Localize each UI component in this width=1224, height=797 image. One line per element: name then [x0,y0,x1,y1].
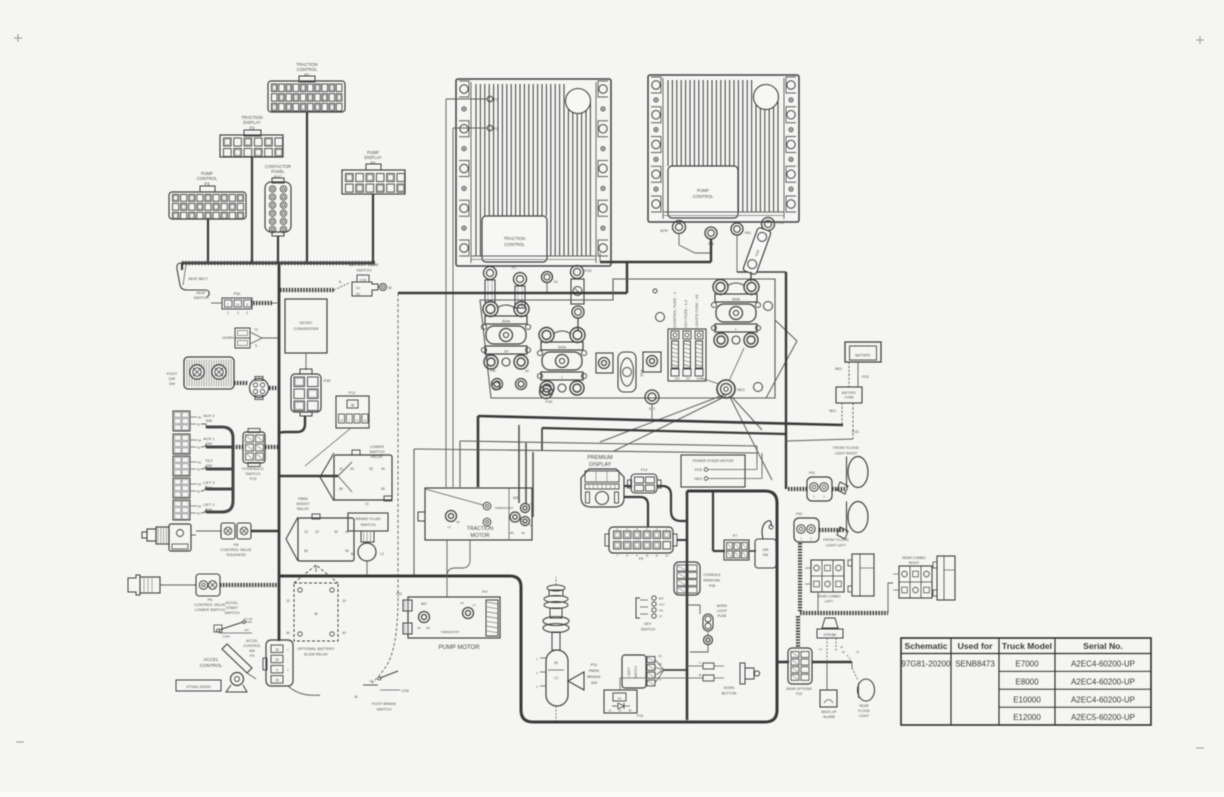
svg-text:SWITCH: SWITCH [246,472,261,476]
svg-text:PUMP: PUMP [697,188,709,193]
svg-text:NO: NO [356,292,361,296]
strobe leads [826,638,828,660]
harness comb for hydraulic switches [207,427,233,512]
wire hatched bus to rear combo right [888,583,893,613]
svg-text:TRACTION: TRACTION [504,236,525,241]
svg-text:52: 52 [197,468,201,472]
svg-text:P13: P13 [250,477,257,481]
svg-text:SOLENOID: SOLENOID [226,553,246,557]
wire rear combo left drop [817,592,819,612]
svg-text:NEG: NEG [695,477,703,481]
wire P41 to lamp [832,487,845,491]
svg-text:SW: SW [206,441,213,446]
pump motor connector P51 [486,600,498,636]
svg-text:POS: POS [776,221,784,225]
wire P14 to console trunk [657,486,687,521]
svg-text:Serial No.: Serial No. [1083,641,1123,651]
svg-text:LIGHTS FUSE - #3: LIGHTS FUSE - #3 [694,295,699,328]
svg-text:FOOT BRAKE: FOOT BRAKE [372,702,397,706]
panel hole 4 [754,383,763,392]
pump module stud P58 [705,227,717,239]
svg-text:52: 52 [197,490,201,494]
svg-text:29: 29 [275,679,279,683]
svg-text:POS: POS [584,269,592,273]
svg-text:E10000: E10000 [1013,695,1041,704]
bus1 panel to battery [478,416,843,425]
svg-text:P12: P12 [349,391,356,395]
svg-text:50: 50 [554,661,558,665]
svg-text:P16: P16 [637,714,643,718]
wire NEG to contactor L [729,348,744,381]
console removal connector P45 [674,562,700,595]
traction motor shaft [418,512,425,521]
wire battery NEG lead [848,362,850,374]
traction module terminal P2 [487,125,493,131]
svg-text:10: 10 [339,467,343,471]
svg-text:POS: POS [852,430,859,434]
svg-text:P40: P40 [490,369,496,373]
svg-text:50: 50 [198,439,202,443]
svg-text:10: 10 [236,303,240,307]
wire slide fuse to contactor L [750,272,752,281]
wire trunk to relays y476 [279,475,338,477]
wire NEG to fuse block [701,378,719,384]
stud ST1 [645,390,659,404]
svg-text:THERMOSTAT: THERMOSTAT [495,506,514,510]
switch connector AUX 1 SW [173,434,190,454]
stud ST1 150A [596,353,613,373]
svg-text:DIR: DIR [169,377,176,381]
switch connector LIFT 1 SW [173,500,190,520]
svg-text:1A: 1A [504,350,509,354]
svg-text:D8: D8 [426,626,430,630]
svg-text:13A: 13A [674,377,679,381]
contactor 1A lower studs [492,379,503,390]
contactor I 300A [539,328,554,343]
wire P1 to bus [306,112,308,263]
battery [845,342,881,362]
svg-text:50: 50 [345,549,349,553]
svg-text:32: 32 [286,599,290,603]
dashed drop x398 to pump motor [397,293,399,597]
svg-text:FOOT: FOOT [167,372,178,376]
wire brake fluid switch to bus [366,561,368,576]
front flood light left [848,502,868,533]
svg-text:POS: POS [695,468,703,472]
svg-text:CONTROL FUSE - 4: CONTROL FUSE - 4 [672,291,677,328]
svg-text:Used for: Used for [958,641,994,651]
svg-text:P29: P29 [796,692,802,696]
svg-text:P47: P47 [482,590,488,594]
svg-text:SWITCH: SWITCH [377,708,392,712]
wire converter to P39 [305,353,307,370]
rear combo right housing [937,556,955,600]
svg-text:+: + [287,668,289,672]
svg-text:50: 50 [198,505,202,509]
wire battery conn NEG drop [841,403,843,424]
svg-text:DISPLAY: DISPLAY [364,155,382,160]
wire P4 to bus [372,194,374,263]
svg-text:RIGHT: RIGHT [909,561,920,565]
hydraulic switch connector P13 [243,432,265,463]
wire feeder to P41 [788,487,807,491]
seat belt icon [177,263,209,297]
switch connector TILT SW [173,456,190,476]
svg-text:50: 50 [198,416,202,420]
console trunk x687 [686,491,689,720]
svg-text:60: 60 [304,549,308,553]
panel corner notch [766,341,797,398]
wire P9 bottom curve [288,686,320,695]
svg-text:KEY FUSE - 1,2: KEY FUSE - 1,2 [683,300,688,328]
svg-text:STROBE: STROBE [823,633,836,637]
svg-text:A2: A2 [460,601,464,605]
key switch [636,598,640,618]
svg-text:P41: P41 [809,471,815,475]
svg-text:A2: A2 [525,369,529,373]
svg-text:LOWER SWITCH: LOWER SWITCH [195,608,225,612]
svg-text:LIGHT RIGHT: LIGHT RIGHT [835,452,859,456]
svg-text:50: 50 [198,461,202,465]
dc/dc converter [285,299,327,353]
svg-text:300A: 300A [732,298,741,302]
svg-text:E12000: E12000 [1013,713,1041,722]
panel hole 3 [764,302,773,311]
svg-text:SWITCH: SWITCH [357,269,372,273]
traction module stud A1 [542,272,553,283]
svg-text:A2: A2 [529,523,533,527]
svg-text:HORN: HORN [222,336,233,340]
stud NEG [717,380,735,398]
svg-text:13A: 13A [696,377,701,381]
svg-text:NEG: NEG [835,367,842,371]
svg-text:SW: SW [206,418,213,423]
svg-text:30: 30 [369,467,373,471]
svg-text:ALARM: ALARM [823,715,835,719]
wire NEG to bus2 [731,396,762,430]
control valve solenoid [142,532,147,538]
svg-text:LIGHT LEFT: LIGHT LEFT [826,544,847,548]
svg-text:ASSIST: ASSIST [296,502,310,506]
fuse block three fuses [668,329,706,381]
svg-text:P1C: P1C [274,175,282,180]
wire P42 to lamp [819,528,845,532]
svg-text:PA1: PA1 [745,231,751,235]
wire ST1 to bus1 [651,404,653,420]
bus2 panel to x786 [542,428,786,434]
svg-text:52: 52 [658,654,662,658]
svg-text:10: 10 [340,419,344,423]
connector P8 [221,523,235,539]
svg-text:SLIDE RELAY: SLIDE RELAY [304,653,329,657]
wire branch to P7 [712,491,714,551]
park brake switch stack [547,585,565,591]
svg-text:NEG: NEG [737,388,745,392]
svg-text:FRONT FLOOD: FRONT FLOOD [833,446,859,450]
svg-text:3: 3 [246,311,248,315]
switch connector LIFT 2 SW [173,478,190,498]
traction module stud POS [571,266,584,279]
svg-text:50: 50 [381,487,385,491]
svg-text:L2: L2 [819,647,823,651]
wire traction motor to pump motor 2 [447,540,470,576]
wire long y451 power steer stub NEG [761,453,763,474]
svg-text:L: L [735,328,737,332]
svg-text:52: 52 [197,446,201,450]
park brake switch leads [555,577,557,585]
svg-text:SWITCH: SWITCH [194,296,209,300]
svg-text:SWITCH: SWITCH [225,611,240,615]
svg-text:1: 1 [227,311,229,315]
svg-text:10: 10 [342,599,346,603]
park brake switch body [546,650,568,706]
wire trunk to battery slide switch [280,288,334,292]
foot brake switch [363,684,378,686]
svg-text:60: 60 [456,520,460,524]
svg-text:P52: P52 [234,292,241,296]
svg-text:THERMOSTAT: THERMOSTAT [441,630,460,634]
svg-text:A2EC4-60200-UP: A2EC4-60200-UP [1071,660,1135,669]
svg-text:CONTROL VALVE: CONTROL VALVE [194,603,226,607]
svg-text:ACCEL: ACCEL [226,601,239,605]
wire P3 to bus [207,219,209,263]
panel hole 1 [653,289,657,293]
wire NEG to y451 [614,396,726,451]
pump module stud POS [762,218,775,231]
rear combo right cluster [899,566,932,598]
svg-text:LOWER: LOWER [370,445,384,449]
wire module terminal to left drop 1 [446,98,487,100]
switch connector AUX 2 SW [173,411,190,431]
svg-text:P39: P39 [324,379,331,383]
svg-text:SWITCH: SWITCH [634,665,638,678]
svg-text:63: 63 [658,662,662,666]
svg-text:39: 39 [275,648,279,652]
svg-text:A2EC4-60200-UP: A2EC4-60200-UP [1071,677,1135,686]
svg-text:SWITCH: SWITCH [641,628,656,632]
hatched wire above P29 [796,616,800,647]
svg-text:SEAT BELT: SEAT BELT [188,277,209,281]
battery connector [836,387,862,403]
svg-text:PREMIUM: PREMIUM [587,455,613,461]
pump motor box [408,597,500,638]
svg-text:MOTOR: MOTOR [470,533,489,539]
back-up alarm [826,663,828,690]
svg-text:SW: SW [591,680,598,685]
light switch [622,655,646,688]
wire P13 to trunk [265,445,279,449]
svg-text:14: 14 [363,419,367,423]
svg-text:KEY: KEY [644,622,652,626]
rear flood light [851,662,853,668]
wire foot dir switch to P49 [234,381,248,385]
svg-text:CONTROL: CONTROL [243,644,261,648]
svg-text:50: 50 [628,709,632,713]
pump module stud PA1 [731,223,743,235]
svg-text:7: 7 [227,303,229,307]
contactor I POS stud [540,386,553,399]
svg-text:A2EC4-60200-UP: A2EC4-60200-UP [1071,695,1135,704]
wire loop left and bottom [510,491,777,722]
svg-text:11: 11 [609,709,612,713]
svg-text:BRAKE: BRAKE [587,674,601,679]
svg-text:B#1: B#1 [421,602,427,606]
svg-text:P45: P45 [709,584,715,588]
control valve lower switch plug [128,575,140,595]
corner tick marks [14,37,22,39]
svg-text:18: 18 [698,673,702,677]
svg-text:CONN: CONN [844,396,854,400]
svg-text:-: - [287,658,288,662]
svg-text:B4: B4 [351,552,355,556]
wire traction motor to pump motor 1 [446,540,448,597]
svg-text:P52: P52 [396,592,402,596]
svg-text:34: 34 [354,695,358,699]
svg-text:LIGHT: LIGHT [859,714,869,718]
svg-text:CONSOLE: CONSOLE [703,573,721,577]
wire P5 to console trunk [677,539,687,541]
svg-text:L3: L3 [472,603,476,607]
svg-text:E7000: E7000 [1015,660,1039,669]
connector P49 [250,379,269,398]
svg-text:-: - [287,679,288,683]
connector P16 diode box [604,690,637,713]
svg-text:BACK-UP: BACK-UP [821,710,837,714]
wire P29 to rear accessories [812,661,852,664]
wire P7 to dir switch [749,550,756,552]
wire solenoid to P8 [196,530,221,532]
svg-text:BATTERY: BATTERY [842,391,857,395]
svg-text:BATTERY: BATTERY [855,354,871,358]
wire module terminal to left drop 2 [453,127,487,129]
svg-text:DISPLAY: DISPLAY [589,462,612,468]
wire PA1 down [736,235,738,272]
svg-text:P1: P1 [512,266,516,270]
traction motor box [425,488,532,540]
svg-text:60: 60 [339,487,343,491]
wire battery POS lead [857,362,859,380]
svg-text:CONTROL: CONTROL [297,67,318,72]
premium display unit [581,469,624,507]
svg-text:DISPLAY: DISPLAY [243,120,261,125]
contactor 1A 300A [483,302,498,317]
wire comb to P13 [233,445,244,449]
svg-text:ACCEL: ACCEL [203,657,219,662]
wire AUX 1 to harness [190,439,197,441]
wire loop to rear options [777,661,789,664]
svg-text:HYDRAULIC: HYDRAULIC [242,467,264,471]
traction module stud 2 [514,273,527,286]
svg-text:52: 52 [197,423,201,427]
bus riser x627 [626,262,628,293]
svg-text:PANEL: PANEL [271,169,285,174]
spec table [901,638,1151,725]
svg-text:FLOOD: FLOOD [858,709,870,713]
svg-text:62: 62 [842,650,846,654]
svg-text:SW: SW [763,553,769,557]
wire LIFT 2 to harness [190,483,197,485]
svg-text:13: 13 [356,419,360,423]
svg-text:OPTIONAL BATTERY: OPTIONAL BATTERY [297,647,335,651]
bus y576 trunk to loop [280,575,510,578]
wire P12 diagonal to relay [305,428,351,466]
svg-text:1C: 1C [365,502,370,506]
park brake switch pointer [568,672,584,690]
svg-text:POWER STEER MOTOR: POWER STEER MOTOR [693,459,734,463]
wire display to P14 [624,485,631,487]
svg-text:REAR COMBO: REAR COMBO [902,556,926,560]
panel hole 2 [656,313,665,322]
wire P42 drop hatched [798,543,802,612]
svg-text:P14: P14 [641,468,647,472]
svg-text:SW: SW [249,649,255,653]
svg-text:BAT: BAT [659,597,664,601]
bus1 left drop [477,416,480,487]
svg-text:SW: SW [169,382,176,386]
svg-text:ST: ST [659,615,663,619]
vertical feeder x786 [785,272,787,489]
svg-text:10: 10 [304,530,308,534]
svg-text:P6: P6 [208,598,213,602]
svg-text:BUTTON: BUTTON [722,692,737,696]
svg-text:72: 72 [856,650,860,654]
brake fluid switch [348,513,388,531]
svg-text:PARK: PARK [298,497,309,501]
wire long y451 [414,449,757,453]
rear combo left cluster [811,560,844,592]
svg-text:A1: A1 [529,502,533,506]
wire LIFT 1 to harness [190,505,197,507]
pump module stud WTR [673,221,686,234]
svg-text:A2EC5-60200-UP: A2EC5-60200-UP [1071,713,1135,722]
svg-text:90: 90 [521,531,525,535]
svg-text:COM: COM [223,635,231,639]
svg-text:COM: COM [401,689,409,693]
svg-text:REAR COMBO: REAR COMBO [817,595,841,599]
svg-text:CONVERTER: CONVERTER [293,326,318,331]
wire P39 to trunk [280,416,305,433]
svg-text:P3: P3 [494,98,498,102]
svg-text:LEFT: LEFT [825,600,833,604]
svg-text:WTR: WTR [660,229,668,233]
pump control module [648,75,799,222]
horn button [687,665,703,667]
svg-text:50: 50 [198,483,202,487]
svg-text:LIGHT: LIGHT [717,609,727,613]
svg-text:9: 9 [246,303,248,307]
wire battery POS drop [852,403,854,439]
svg-text:SWITCH: SWITCH [361,523,376,527]
wire NEG to loop corner [730,397,772,480]
svg-text:HORN: HORN [724,686,735,690]
light switch pins [647,657,655,663]
svg-text:CONTROL: CONTROL [197,176,218,181]
svg-text:29: 29 [275,658,279,662]
svg-text:POS: POS [862,375,869,379]
strobe light [822,618,838,628]
svg-text:TRACTION: TRACTION [467,526,494,532]
svg-text:WORK: WORK [717,604,728,608]
connector P39 [300,369,312,374]
svg-text:81: 81 [417,626,421,630]
wire pump motor to foot brake [372,598,398,683]
svg-text:38: 38 [351,404,355,408]
svg-text:5A: 5A [686,377,690,381]
connector P5 [609,527,673,553]
svg-text:2: 2 [237,311,239,315]
svg-text:B5: B5 [510,531,514,535]
front flood light right [848,457,868,488]
